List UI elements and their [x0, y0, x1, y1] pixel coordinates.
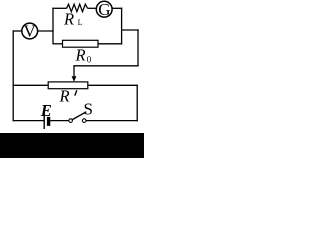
wire: galvanometer to right node corner	[112, 7, 122, 9]
wire: bottom wire right segment (switch to right corner)	[86, 120, 138, 122]
svg-text:L: L	[78, 18, 83, 27]
wire: output tap horizontal (right node to outer right)	[122, 29, 139, 31]
wire: outer right upper vertical	[137, 29, 139, 66]
wire: top branch left segment	[52, 7, 66, 9]
svg-text:G: G	[98, 0, 110, 19]
svg-text:E: E	[40, 101, 52, 120]
rheostat R' (box)	[48, 82, 88, 89]
wire: wiper horizontal feed	[74, 65, 139, 67]
svg-text:V: V	[24, 22, 37, 41]
galvanometer G	[96, 0, 112, 19]
wire: left vertical (V down to battery)	[12, 30, 14, 121]
wire: R_L to galvanometer	[88, 7, 97, 9]
black censor bar at bottom	[0, 133, 144, 158]
wire: voltmeter left lead	[13, 30, 22, 32]
battery E	[44, 113, 50, 129]
svg-text:R: R	[59, 87, 70, 106]
wire: R' right lead	[88, 84, 138, 86]
wire: outer right lower vertical	[136, 85, 138, 122]
wire: left node vertical of parallel section	[52, 8, 54, 45]
resistor R_L (zigzag)	[67, 4, 88, 12]
wire: voltmeter right lead to left node	[38, 30, 54, 32]
svg-text:R: R	[63, 10, 74, 29]
wire: switch to battery	[50, 120, 69, 122]
wire: bottom branch right segment	[98, 43, 122, 45]
wire: R' left lead	[13, 84, 49, 86]
wire: right node vertical of parallel section	[121, 8, 123, 45]
wiper arrow of rheostat R'	[72, 65, 77, 82]
wire: bottom branch left segment	[53, 43, 63, 45]
svg-text:R: R	[75, 45, 86, 64]
resistor R_0 (box)	[63, 40, 99, 47]
switch S	[69, 112, 87, 123]
voltmeter V	[22, 22, 38, 41]
wire: battery left lead	[13, 120, 44, 122]
svg-text:S: S	[84, 99, 93, 118]
svg-text:0: 0	[87, 54, 92, 64]
